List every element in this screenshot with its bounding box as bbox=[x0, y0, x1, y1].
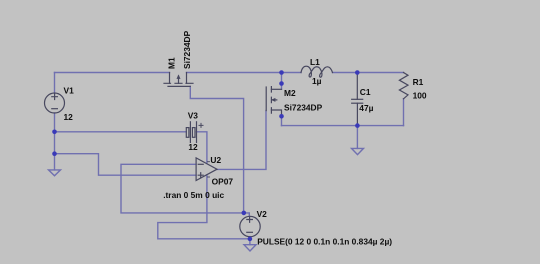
wire V3 left feed bbox=[55, 131, 187, 133]
node junction M2 source bbox=[279, 114, 284, 119]
svg-text:100: 100 bbox=[413, 91, 427, 101]
inductor L1 bbox=[301, 66, 333, 77]
wire M2 drain riser bbox=[281, 73, 283, 90]
node junction C1 top bbox=[355, 70, 360, 75]
wire V1 top stub bbox=[54, 73, 56, 94]
voltage source V2 bbox=[240, 216, 260, 236]
svg-text:U2: U2 bbox=[210, 155, 221, 165]
svg-text:V1: V1 bbox=[64, 86, 75, 96]
svg-text:12: 12 bbox=[64, 112, 74, 122]
node junction V2 top feedback bbox=[242, 211, 247, 216]
wire R1 bottom bbox=[403, 99, 405, 126]
op-amp U2 bbox=[196, 158, 217, 181]
svg-text:C1: C1 bbox=[360, 87, 371, 97]
wire op-amp V- to V2 bottom bbox=[158, 175, 250, 239]
node junction M2 drain bbox=[279, 81, 284, 86]
svg-text:L1: L1 bbox=[310, 57, 320, 67]
resistor R1 bbox=[399, 73, 408, 99]
node junction V1-V3 bbox=[52, 130, 57, 135]
wire rail L1 to R1 bbox=[333, 72, 404, 74]
node junction switch node rail bbox=[279, 70, 284, 75]
wire plus-input path bbox=[55, 154, 197, 176]
svg-text:Si7234DP: Si7234DP bbox=[284, 103, 323, 113]
wire V1 bottom run bbox=[54, 113, 56, 170]
transistor M2 (nmos) bbox=[266, 87, 281, 117]
wire top rail right (M1 source to L1) bbox=[187, 72, 302, 74]
svg-text:PULSE(0 12 0 0.1n 0.1n 0.834µ: PULSE(0 12 0 0.1n 0.1n 0.834µ 2µ) bbox=[257, 237, 392, 247]
wire V3 plus to op-amp V+ bbox=[197, 132, 207, 164]
ground below C1 bbox=[352, 148, 364, 154]
svg-text:12: 12 bbox=[188, 142, 198, 152]
svg-text:V3: V3 bbox=[188, 111, 199, 121]
svg-text:Si7234DP: Si7234DP bbox=[182, 30, 192, 69]
svg-text:OP07: OP07 bbox=[212, 177, 234, 187]
wire V2 bottom stub bbox=[249, 237, 251, 245]
svg-text:1µ: 1µ bbox=[312, 76, 322, 86]
wire bottom output run bbox=[282, 125, 404, 127]
wire minus-input feedback path bbox=[121, 164, 249, 216]
svg-text:M1: M1 bbox=[167, 57, 177, 69]
wire top rail left (V1 to M1 drain) bbox=[55, 72, 170, 74]
node junction C1 bottom bbox=[355, 123, 360, 128]
wire op-amp output to M2 gate bbox=[217, 111, 266, 170]
voltage source V1 bbox=[45, 93, 65, 113]
node junction V2 bottom ground bbox=[248, 237, 253, 242]
ground below V1 bbox=[49, 170, 61, 176]
svg-text:47µ: 47µ bbox=[359, 103, 373, 113]
wire M1 gate to V2 node bbox=[190, 86, 243, 212]
capacitor C1 bbox=[352, 73, 363, 126]
transistor M1 (rotated nmos) bbox=[164, 73, 193, 87]
battery V3 bbox=[186, 122, 203, 143]
svg-text:R1: R1 bbox=[413, 77, 424, 87]
wire M2 source drop bbox=[281, 116, 283, 125]
ground below V2 bbox=[244, 245, 256, 251]
node junction V1-plus-input bbox=[52, 151, 57, 156]
svg-text:V2: V2 bbox=[257, 209, 268, 219]
svg-text:M2: M2 bbox=[284, 88, 296, 98]
svg-text:.tran 0 5m 0 uic: .tran 0 5m 0 uic bbox=[163, 190, 224, 200]
wire C1 bottom stub to ground bbox=[356, 126, 358, 149]
